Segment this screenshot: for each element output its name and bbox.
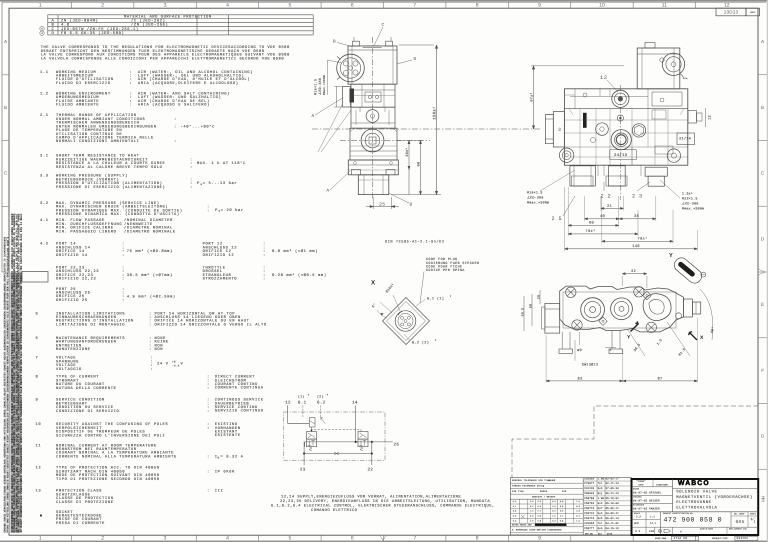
svg-text:C58777: C58777	[584, 527, 594, 530]
svg-text:SHOP-DWG: SHOP-DWG	[655, 537, 667, 540]
svg-text:3: 3	[164, 3, 167, 9]
svg-text:2 5: 2 5	[552, 216, 563, 222]
svg-text:84-07-05 GEIGER: 84-07-05 GEIGER	[633, 500, 660, 503]
svg-text:NOTED ABOVE ARE: NOTED ABOVE ARE	[512, 524, 532, 527]
svg-text:3.3: 3.3	[40, 174, 49, 179]
svg-text:1.5±¹: 1.5±¹	[682, 192, 693, 196]
svg-text::: :	[149, 348, 152, 352]
svg-text:THREAD TOLERANCE 6H/6g: THREAD TOLERANCE 6H/6g	[512, 484, 545, 487]
svg-text:ORIFIZIO 14 ORIZZONTALE O VERS: ORIFIZIO 14 ORIZZONTALE O VERSO IL ALTO	[155, 322, 267, 327]
svg-text:ø9: ø9	[577, 348, 582, 353]
svg-text:6: 6	[41, 28, 43, 31]
svg-text:MIN. PASSAGGIO LIBERO: MIN. PASSAGGIO LIBERO	[56, 229, 117, 234]
svg-text:C: C	[4, 171, 8, 176]
svg-text:R16±¹: R16±¹	[385, 282, 396, 294]
svg-text:-4.4: -4.4	[172, 364, 180, 367]
svg-text:0.8: 0.8	[513, 510, 517, 513]
svg-text:23: 23	[300, 468, 306, 473]
svg-text:0.3: 0.3	[537, 500, 541, 503]
svg-text:14: 14	[352, 400, 358, 405]
svg-text:C79877: C79877	[584, 482, 594, 485]
svg-text:21/14: 21/14	[679, 136, 692, 141]
svg-text:8: 8	[36, 375, 39, 380]
svg-text:4.1: 4.1	[40, 218, 49, 223]
svg-text:0.3: 0.3	[560, 505, 564, 508]
svg-text::: :	[149, 323, 152, 327]
svg-text:Sub: Sub	[598, 512, 603, 515]
svg-text:TIPO DI PROTEZIONE SECONDO DIN: TIPO DI PROTEZIONE SECONDO DIN 40050	[56, 477, 160, 482]
svg-text:∠ED-388: ∠ED-388	[318, 78, 323, 95]
svg-text:22,23,25 DELIVERY, ENERGIEABFL: 22,23,25 DELIVERY, ENERGIEABFLUSS IN DIE…	[280, 499, 490, 504]
svg-text:9: 9	[538, 3, 541, 9]
svg-text:IT NICHT AUSDRUECKLICH ZUGESTA: IT NICHT AUSDRUECKLICH ZUGESTANDEN ZUWID…	[20, 213, 23, 532]
svg-text:6.2 (2): 6.2 (2)	[412, 340, 429, 345]
svg-text:10: 10	[36, 422, 42, 427]
svg-text:38.5 mm² (≈Ø7mm): 38.5 mm² (≈Ø7mm)	[127, 273, 173, 278]
svg-text:12: 12	[285, 400, 291, 405]
svg-text:2.1: 2.1	[537, 510, 541, 513]
svg-text:MAGNETVENTIL (VORDERACHSE): MAGNETVENTIL (VORDERACHSE)	[676, 495, 753, 500]
svg-text:271A DW: 271A DW	[674, 537, 688, 540]
svg-text:MAX. 1 h AT 110°C: MAX. 1 h AT 110°C	[197, 161, 246, 166]
svg-text:22: 22	[368, 468, 374, 473]
svg-text:2.6: 2.6	[530, 500, 534, 503]
svg-text:A: A	[312, 114, 315, 119]
svg-text:12: 12	[600, 75, 608, 81]
svg-text:0.3: 0.3	[537, 519, 541, 522]
svg-text:84-07-05 PANZER: 84-07-05 PANZER	[633, 508, 660, 511]
svg-text:PRESA DI CORRENTE: PRESA DI CORRENTE	[56, 521, 105, 526]
svg-text:NON: NON	[155, 347, 164, 352]
svg-text:CORRENTE NOMINAL ALLA TEMPERAT: CORRENTE NOMINAL ALLA TEMPERATURA AMBIEN…	[56, 454, 177, 459]
svg-text:56.5: 56.5	[520, 308, 524, 317]
svg-text:1.1: 1.1	[40, 70, 49, 75]
svg-text:ORIFIZIO 22,23: ORIFIZIO 22,23	[56, 277, 96, 282]
svg-text:Mmax.+50Nm: Mmax.+50Nm	[527, 200, 549, 204]
svg-text:4 1: 4 1	[635, 530, 641, 533]
svg-text:2.6: 2.6	[576, 510, 580, 513]
svg-text:26: 26	[536, 295, 540, 299]
svg-text:C58783: C58783	[584, 502, 594, 505]
svg-text:0.8 mm² (≈Ø1 mm): 0.8 mm² (≈Ø1 mm)	[272, 249, 318, 254]
svg-text:WN-NR: WN-NR	[548, 479, 556, 482]
svg-text:V: V	[181, 362, 184, 367]
svg-text:75 mm² (≈Ø9.8mm): 75 mm² (≈Ø9.8mm)	[127, 249, 173, 254]
svg-text:CORRENTE CONTINUA: CORRENTE CONTINUA	[215, 386, 264, 391]
svg-text:5: 5	[288, 536, 291, 542]
svg-text:28±¹: 28±¹	[405, 147, 410, 156]
svg-text::: :	[174, 125, 177, 129]
svg-text:SCM: SCM	[634, 522, 639, 525]
svg-text:-40°...+80°C: -40°...+80°C	[181, 124, 216, 129]
svg-text:0.28 mm² (≈Ø0.6 mm): 0.28 mm² (≈Ø0.6 mm)	[272, 273, 327, 278]
svg-text:DIN 7168: DIN 7168	[512, 490, 524, 493]
svg-text:PRODUCT IDENTIFICATION NO.: PRODUCT IDENTIFICATION NO.	[663, 512, 694, 515]
svg-text:RESISTENZA AL CALORE BREVE TEM: RESISTENZA AL CALORE BREVE TEMPO SOLO	[56, 165, 163, 170]
svg-text:11: 11	[662, 3, 667, 9]
svg-text:0.8: 0.8	[560, 519, 564, 522]
svg-text:C82098: C82098	[584, 522, 594, 525]
svg-text::: :	[263, 278, 266, 282]
svg-text::: :	[129, 82, 132, 86]
svg-text:F: F	[761, 368, 764, 373]
svg-text:0.5: 0.5	[560, 510, 564, 513]
svg-text:5°: 5°	[371, 302, 378, 309]
svg-text::: :	[190, 186, 193, 190]
svg-text:Tol: Tol	[598, 482, 603, 485]
svg-text:+6: +6	[172, 361, 176, 364]
svg-text:0.8: 0.8	[537, 515, 541, 518]
svg-text:C58755: C58755	[584, 497, 594, 500]
svg-text::: :	[129, 104, 132, 108]
svg-text:H: H	[760, 498, 765, 501]
svg-text:CONDIZIONE DI SERVIZIO: CONDIZIONE DI SERVIZIO	[56, 409, 119, 414]
svg-text:8: 8	[476, 3, 479, 9]
svg-text:79±¹: 79±¹	[585, 229, 595, 234]
svg-text:*: *	[435, 339, 437, 344]
svg-text:1.5: 1.5	[552, 515, 556, 518]
svg-text:95-02-14: 95-02-14	[606, 517, 620, 520]
svg-text:0.5: 0.5	[513, 519, 517, 522]
svg-text:7: 7	[413, 3, 416, 9]
svg-text:7: 7	[36, 356, 39, 361]
svg-text:RTUNG UND MITTEILUNG IHRES INH: RTUNG UND MITTEILUNG IHRES INHALTS NICHT…	[6, 236, 9, 532]
svg-text:C58715: C58715	[584, 517, 594, 520]
svg-text:605: 605	[736, 519, 745, 525]
svg-text:1: 1	[609, 348, 611, 353]
svg-text:6.2: 6.2	[317, 400, 326, 405]
svg-text:M16×1.5: M16×1.5	[313, 79, 318, 95]
svg-text:WBC: WBC	[750, 11, 756, 14]
svg-text:1.5: 1.5	[576, 500, 580, 503]
svg-text:0.5: 0.5	[513, 500, 517, 503]
svg-text:3.2: 3.2	[40, 201, 49, 206]
svg-text:2.6: 2.6	[530, 519, 534, 522]
svg-text:ESISTENTE: ESISTENTE	[215, 433, 241, 438]
svg-text:Tol: Tol	[598, 522, 603, 525]
svg-text:3: 3	[164, 536, 167, 542]
svg-text:GEWICHT / WEIGHT: GEWICHT / WEIGHT	[532, 495, 556, 498]
svg-text:2.X: 2.X	[636, 515, 641, 518]
svg-text:24 V: 24 V	[157, 362, 169, 367]
svg-text:9: 9	[36, 398, 39, 403]
svg-text:79±¹: 79±¹	[637, 237, 647, 242]
svg-text:10: 10	[599, 3, 605, 9]
svg-text:Sub: Sub	[598, 502, 603, 505]
svg-text:VOLTAGGIO: VOLTAGGIO	[56, 367, 82, 372]
svg-text:ELECTROVANNE: ELECTROVANNE	[676, 500, 711, 505]
svg-text:60: 60	[589, 221, 595, 226]
svg-text:2: 2	[101, 536, 104, 542]
svg-text:3: 3	[558, 127, 561, 133]
svg-text:R1.5: R1.5	[678, 347, 687, 357]
svg-text::: :	[122, 299, 125, 303]
svg-text::: :	[207, 410, 210, 414]
svg-text:1: 1	[39, 536, 42, 542]
svg-text:DIN: DIN	[562, 490, 567, 493]
svg-text::: :	[190, 166, 193, 170]
svg-text:D: D	[51, 31, 54, 36]
svg-text:C58732: C58732	[584, 512, 594, 515]
svg-text:SICUREZZA CONTRO L'INVERSIONE: SICUREZZA CONTRO L'INVERSIONE DEI POLI	[56, 433, 165, 438]
svg-text:2.1: 2.1	[560, 515, 564, 518]
svg-text:NORMALI CONDIZIONI AMBIENTALI: NORMALI CONDIZIONI AMBIENTALI	[56, 139, 139, 144]
svg-text:EDGES: EDGES	[540, 490, 548, 493]
svg-text:DEL.IDENT: DEL.IDENT	[734, 512, 745, 515]
svg-text:5: 5	[288, 3, 291, 9]
svg-text:D: D	[761, 236, 765, 241]
svg-text:4.2: 4.2	[40, 242, 49, 247]
svg-text:6.1,6.2,6.4 ELECTRICAL CONTROL: 6.1,6.2,6.4 ELECTRICAL CONTROL, ELEKTRIS…	[271, 503, 495, 508]
svg-text:97-09-34: 97-09-34	[606, 487, 620, 490]
svg-text:C82958: C82958	[584, 477, 594, 480]
svg-text:94-10-19: 94-10-19	[606, 527, 620, 530]
svg-text:94-11-02: 94-11-02	[606, 522, 620, 525]
svg-text::: :	[174, 140, 177, 144]
svg-text:2 2: 2 2	[601, 193, 612, 199]
svg-text::: :	[207, 209, 210, 213]
svg-text:8: 8	[476, 536, 479, 542]
svg-text:140: 140	[632, 244, 640, 249]
svg-text:X: X	[700, 335, 704, 341]
svg-text:98-11-13: 98-11-13	[606, 492, 620, 495]
svg-text:02-11-13: 02-11-13	[606, 482, 620, 485]
svg-text:6.3: 6.3	[530, 515, 534, 518]
svg-text::: :	[207, 427, 210, 431]
svg-text:ORIFIZIO 25: ORIFIZIO 25	[56, 298, 88, 303]
svg-text:Mmax.+50Nm: Mmax.+50Nm	[323, 75, 326, 95]
svg-text:472 900 058 0: 472 900 058 0	[664, 517, 723, 524]
svg-text:12: 12	[707, 115, 712, 120]
svg-text:66: 66	[417, 161, 422, 166]
svg-text:95-10-02: 95-10-02	[606, 497, 620, 500]
svg-text:2: 2	[101, 3, 104, 9]
svg-text:X: X	[371, 280, 376, 287]
svg-text:A: A	[761, 39, 765, 44]
svg-text::: :	[263, 254, 266, 258]
svg-text:C61236: C61236	[584, 487, 594, 490]
svg-text::: :	[207, 387, 210, 391]
svg-text:1: 1	[754, 520, 756, 524]
svg-text:4: 4	[226, 3, 229, 9]
svg-text:*: *	[450, 295, 452, 300]
svg-text:STANDARDS: STANDARDS	[633, 504, 645, 507]
svg-text:ORIFIZIO 12: ORIFIZIO 12	[203, 253, 235, 258]
svg-text:4: 4	[226, 536, 229, 542]
svg-text:1.2: 1.2	[40, 92, 49, 97]
svg-text:1:1: 1:1	[650, 515, 655, 518]
svg-text:4.9 mm² (≈Ø2.5mm): 4.9 mm² (≈Ø2.5mm)	[127, 295, 176, 300]
svg-text:0.2: 0.2	[530, 505, 533, 508]
svg-text::: :	[207, 490, 210, 494]
svg-text:12,14 SUPPLY,ENERGIEZUFLUSS VO: 12,14 SUPPLY,ENERGIEZUFLUSS VOM VORRAT, …	[281, 495, 461, 500]
svg-text:M22×1.5: M22×1.5	[682, 197, 698, 201]
svg-text:G: G	[761, 434, 765, 439]
svg-text:D: D	[414, 57, 417, 62]
svg-text:Y: Y	[669, 253, 673, 259]
svg-text:Y: Y	[627, 334, 631, 340]
svg-text:0.2: 0.2	[576, 515, 579, 518]
svg-text:/DIAMETRO NOMINALE: /DIAMETRO NOMINALE	[124, 229, 176, 234]
svg-text:Sub: Sub	[598, 517, 603, 520]
svg-text:0.5: 0.5	[537, 505, 541, 508]
svg-text:2.6: 2.6	[552, 505, 556, 508]
svg-text:1.5: 1.5	[530, 510, 534, 513]
svg-text:LIMITAZIONE DI MONTAGGIO: LIMITAZIONE DI MONTAGGIO	[56, 322, 125, 327]
svg-text:PRESSIONE DINAMICA MAX. (CONDO: PRESSIONE DINAMICA MAX. (CONDOTTA D'USCI…	[56, 212, 180, 217]
svg-text:6.3: 6.3	[576, 505, 580, 508]
svg-text:C: C	[761, 171, 765, 176]
svg-text::: :	[207, 455, 210, 459]
svg-text:1.5: 1.5	[656, 338, 664, 346]
svg-text:58: 58	[528, 304, 532, 308]
svg-text:*: *	[308, 393, 310, 397]
svg-text:III: III	[215, 489, 224, 494]
svg-text:95-09-11: 95-09-11	[606, 507, 620, 510]
svg-text:E: E	[761, 302, 764, 307]
svg-text:MANUTENZIONE: MANUTENZIONE	[56, 347, 91, 352]
svg-text:1: 1	[39, 3, 42, 9]
svg-text:PRODUCT-TYPE: PRODUCT-TYPE	[712, 537, 728, 540]
svg-text:1.5: 1.5	[576, 519, 580, 522]
svg-text:DATE: DATE	[607, 532, 613, 535]
svg-text:WABCO: WABCO	[678, 480, 710, 487]
svg-text:87: 87	[657, 376, 662, 381]
svg-text:LA VALVOLA CORRISPONDE ALLE CO: LA VALVOLA CORRISPONDE ALLE CONDIZIONI P…	[41, 56, 285, 61]
svg-text:32: 32	[631, 269, 637, 274]
svg-text:83: 83	[577, 376, 583, 381]
svg-text:1.We: 1.We	[598, 497, 605, 500]
svg-text:A: A	[327, 189, 330, 194]
svg-text:25: 25	[394, 442, 400, 447]
svg-text:COMANDO ELETTRICO: COMANDO ELETTRICO	[311, 508, 358, 513]
svg-text:PRESSIONE DI ESERCIZIO (ALIMEN: PRESSIONE DI ESERCIZIO (ALIMENTAZIONE)	[56, 185, 165, 190]
svg-text:25: 25	[379, 202, 385, 208]
svg-text:ELETTROVALVOLA: ELETTROVALVOLA	[676, 505, 717, 510]
svg-text:9: 9	[538, 536, 541, 542]
svg-text:6: 6	[351, 3, 354, 9]
svg-text:*: *	[327, 393, 329, 397]
svg-text:2.1: 2.1	[40, 113, 49, 118]
svg-text:FLUIDO AMBIENTE: FLUIDO AMBIENTE	[56, 103, 99, 108]
svg-text:A: A	[4, 39, 8, 44]
svg-text:ARIA (ACQUOSO E SALIFERO): ARIA (ACQUOSO E SALIFERO)	[138, 103, 210, 108]
svg-text::: :	[122, 278, 125, 282]
svg-text:7: 7	[413, 536, 416, 542]
svg-text:40: 40	[600, 214, 606, 219]
svg-text:∠ED-388: ∠ED-388	[527, 195, 544, 199]
svg-text:DRAWN: DRAWN	[633, 487, 639, 490]
svg-text:SAMPLE-CODE: SAMPLE-CODE	[700, 527, 713, 530]
svg-text:H: H	[680, 530, 682, 533]
svg-text:12: 12	[36, 466, 42, 471]
svg-text:11: 11	[36, 443, 42, 448]
svg-text:158±¹: 158±¹	[432, 106, 437, 120]
svg-text:38: 38	[634, 214, 640, 219]
svg-text:SW13Ø13: SW13Ø13	[582, 363, 598, 368]
svg-text:Mmax.+50Nm: Mmax.+50Nm	[682, 207, 704, 211]
svg-text:4: 4	[41, 32, 43, 35]
svg-text:ORIFIZIO 14: ORIFIZIO 14	[56, 253, 88, 258]
svg-text:6.1 (1): 6.1 (1)	[427, 296, 444, 301]
svg-text:CLASSE DI PROTEZIONE: CLASSE DI PROTEZIONE	[56, 500, 114, 505]
svg-text:6: 6	[36, 336, 39, 341]
svg-text:STROZZAMENTO: STROZZAMENTO	[203, 277, 238, 282]
svg-text:(2): (2)	[317, 395, 324, 399]
svg-text:6.3: 6.3	[552, 519, 556, 522]
svg-text:B: B	[410, 203, 413, 208]
svg-text::: :	[174, 118, 177, 122]
svg-text:6.1: 6.1	[298, 400, 307, 405]
svg-text:A: BEMERKUNG LASER BMFLIEN LIN: A: BEMERKUNG LASER BMFLIEN LINGERUNGEN	[512, 529, 562, 532]
svg-text:DATE: DATE	[638, 483, 644, 486]
svg-text:FR 6.6 GK-35 (JED-509): FR 6.6 GK-35 (JED-509)	[61, 31, 124, 36]
svg-text:0.8: 0.8	[560, 500, 564, 503]
svg-text:C80443: C80443	[584, 492, 594, 495]
svg-text:SERVIZIO CONTINUO: SERVIZIO CONTINUO	[215, 409, 264, 414]
svg-text:Sub: Sub	[598, 487, 603, 490]
svg-text::: :	[150, 368, 153, 372]
svg-text:B: B	[4, 105, 7, 110]
svg-text:DIN 72585-A1-2.1-Sn/K2: DIN 72585-A1-2.1-Sn/K2	[385, 239, 445, 244]
svg-text:5: 5	[36, 311, 39, 316]
svg-text:001?DC: 001?DC	[737, 537, 749, 540]
svg-text:67±¹: 67±¹	[530, 92, 535, 101]
svg-text:6: 6	[351, 536, 354, 542]
svg-text:84-07-05 SPIEGEL: 84-07-05 SPIEGEL	[633, 491, 662, 494]
svg-text:24/13: 24/13	[614, 153, 628, 158]
svg-text::: :	[207, 470, 210, 474]
svg-text:B: B	[761, 105, 764, 110]
svg-text:3.1: 3.1	[40, 154, 49, 159]
svg-text:12: 12	[724, 3, 730, 9]
svg-text:6.3: 6.3	[552, 500, 556, 503]
svg-text:SHEET: SHEET	[750, 512, 757, 515]
svg-text:14.1: 14.1	[650, 522, 657, 525]
svg-text:B: B	[333, 40, 336, 45]
svg-text:DRY-RK: DRY-RK	[585, 532, 594, 535]
svg-text:13D13: 13D13	[724, 10, 739, 15]
svg-text:NATURA DELLA CORRENTE: NATURA DELLA CORRENTE	[56, 386, 117, 391]
svg-text:Sub: Sub	[598, 527, 603, 530]
svg-text:2.1: 2.1	[513, 505, 517, 508]
svg-text:ARIA (ACQUOSE,OLEIFERE E ALCOO: ARIA (ACQUOSE,OLEIFERE E ALCOOLOSO)	[138, 81, 239, 86]
svg-text:SIGNATURE: SIGNATURE	[656, 483, 668, 486]
svg-text:21: 21	[607, 204, 613, 209]
svg-text:(1): (1)	[298, 395, 305, 399]
svg-text::: :	[122, 254, 125, 258]
svg-text:13: 13	[36, 489, 42, 494]
svg-text:140: 140	[649, 530, 655, 533]
svg-text:CHECKED: CHECKED	[633, 496, 642, 499]
svg-text:FLUIDO DI ESERCIZIO: FLUIDO DI ESERCIZIO	[56, 81, 111, 86]
svg-text:Suf: Suf	[598, 507, 603, 510]
svg-text:94-08-21: 94-08-21	[606, 512, 620, 515]
svg-text:CODICE PER SPINA: CODICE PER SPINA	[426, 268, 465, 272]
svg-text:1.We: 1.We	[598, 477, 605, 480]
svg-text:C58778: C58778	[584, 507, 594, 510]
svg-text:0.2: 0.2	[552, 510, 555, 513]
svg-text:P = 5...13 bar: P = 5...13 bar	[197, 181, 237, 186]
svg-text:∠ED-388: ∠ED-388	[682, 202, 699, 206]
svg-text:IP 6K6K: IP 6K6K	[215, 469, 235, 474]
svg-text:95-10-04: 95-10-04	[606, 502, 620, 505]
svg-text:2 3: 2 3	[632, 193, 643, 199]
svg-text:03-03-17: 03-03-17	[606, 477, 620, 480]
svg-text:Guj: Guj	[598, 492, 603, 495]
svg-text:REPLACEMENT FOR: REPLACEMENT FOR	[729, 528, 747, 531]
svg-text:0.3: 0.3	[513, 515, 517, 518]
